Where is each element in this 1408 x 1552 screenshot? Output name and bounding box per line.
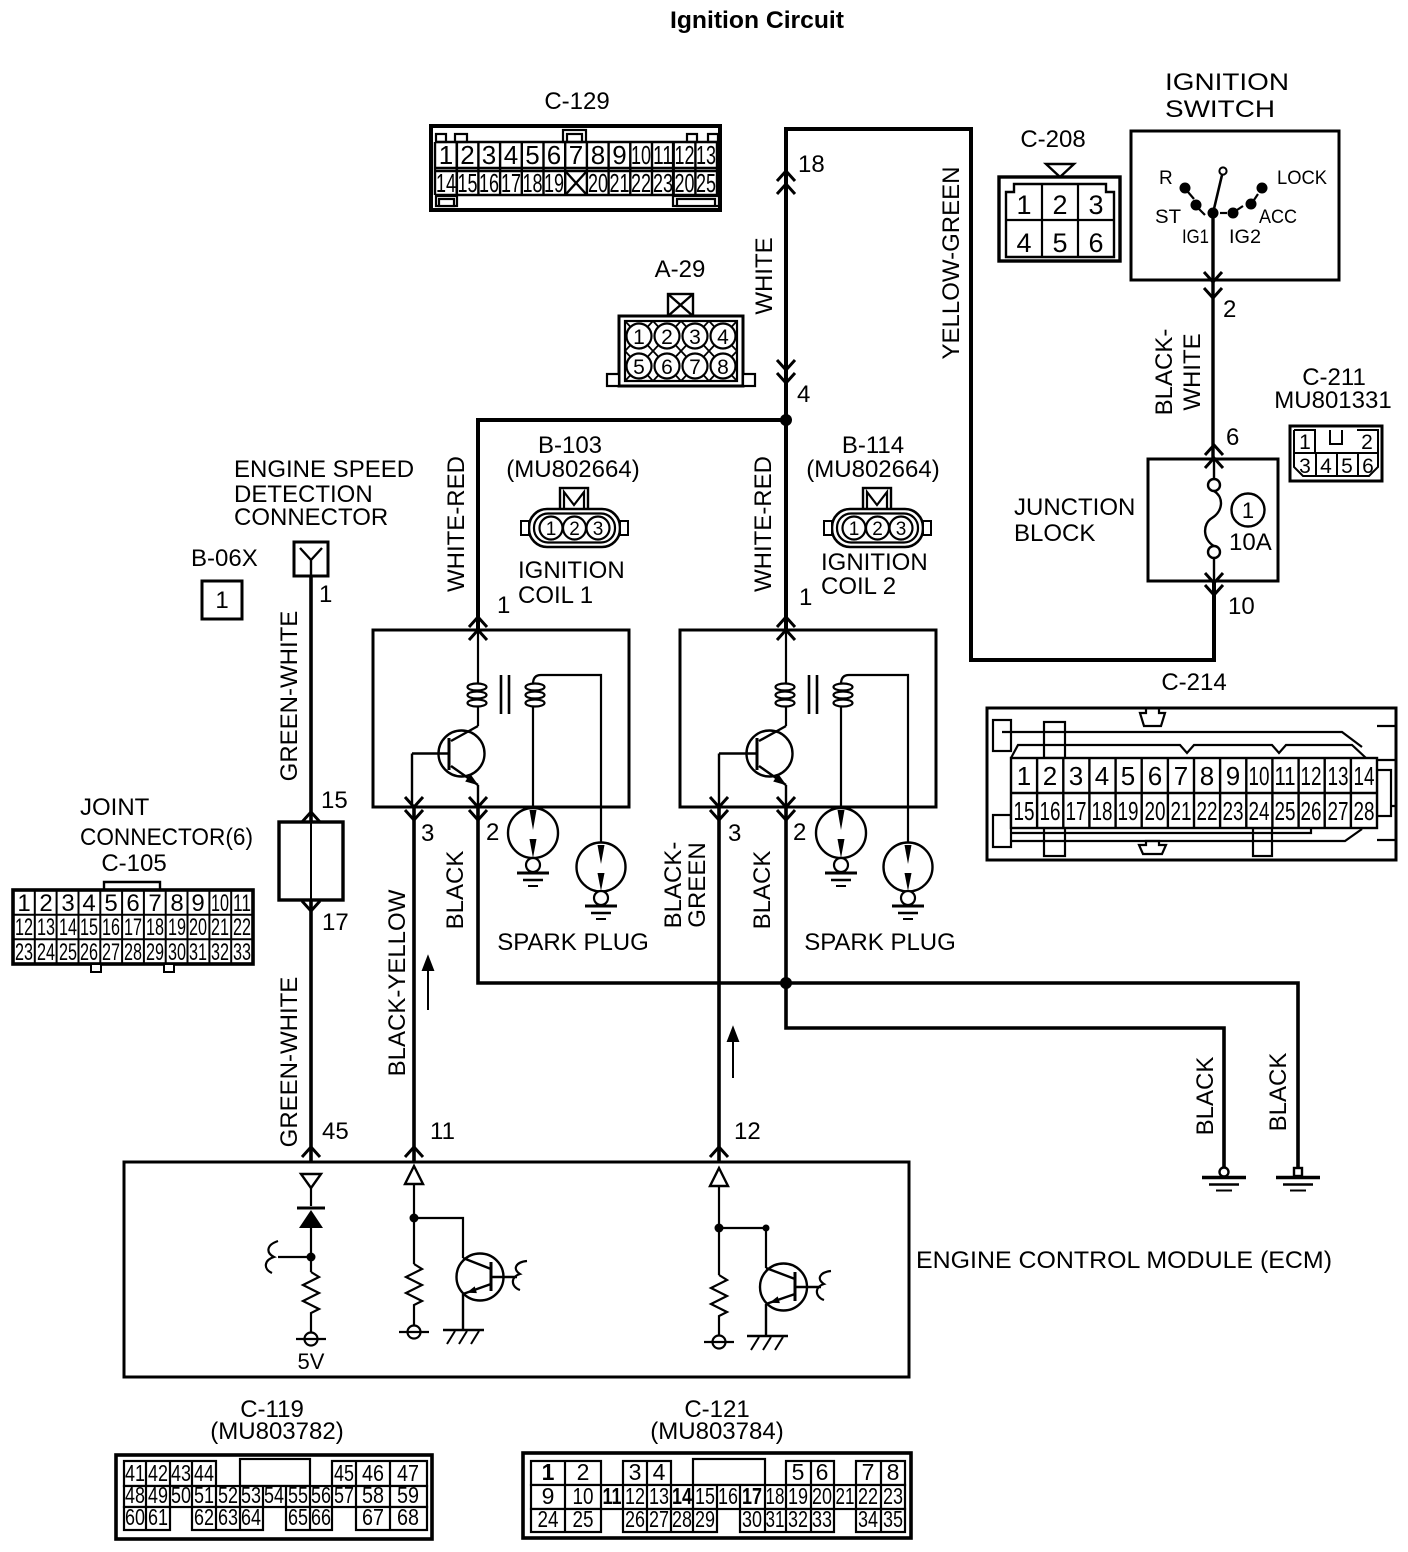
svg-text:GREEN-WHITE: GREEN-WHITE — [276, 611, 303, 782]
svg-text:8: 8 — [1200, 761, 1214, 791]
arrows into coil 2 pin 1 (up) — [777, 617, 795, 627]
transformer T2 secondary — [834, 675, 909, 843]
svg-text:22: 22 — [631, 168, 651, 198]
svg-text:MU801331: MU801331 — [1274, 387, 1391, 414]
node pin12 — [715, 1224, 724, 1233]
ground G1 — [1202, 1168, 1246, 1191]
transistor Q4 — [760, 1264, 821, 1337]
ignition switch — [1131, 69, 1339, 280]
svg-text:2: 2 — [793, 819, 806, 846]
svg-text:BLOCK: BLOCK — [1014, 520, 1095, 547]
arrows on white wire (up, pin 18) — [302, 171, 1223, 1157]
svg-text:BLACK: BLACK — [1265, 1053, 1292, 1132]
wire green-white: engine speed connector to joint connector to ECM pin 45 — [309, 576, 313, 822]
svg-text:20: 20 — [675, 168, 695, 198]
svg-text:33: 33 — [812, 1506, 832, 1532]
svg-text:(MU802664): (MU802664) — [806, 456, 939, 483]
svg-text:18: 18 — [1092, 796, 1113, 826]
svg-text:BLACK-: BLACK- — [660, 842, 687, 929]
svg-text:61: 61 — [148, 1504, 168, 1530]
chassis ground Q4 — [747, 1335, 788, 1337]
svg-text:8: 8 — [887, 1459, 900, 1485]
svg-text:21: 21 — [836, 1483, 855, 1509]
svg-text:CONNECTOR: CONNECTOR — [234, 504, 388, 531]
svg-text:25: 25 — [573, 1506, 594, 1532]
svg-text:16: 16 — [479, 168, 499, 198]
svg-text:ENGINE CONTROL MODULE (ECM): ENGINE CONTROL MODULE (ECM) — [916, 1247, 1332, 1274]
svg-text:BLACK: BLACK — [1192, 1057, 1219, 1136]
joint connector C-105 — [13, 794, 253, 972]
svg-text:SWITCH: SWITCH — [1165, 96, 1275, 123]
svg-text:7: 7 — [1174, 761, 1188, 791]
svg-text:17: 17 — [1066, 796, 1087, 826]
svg-text:5: 5 — [525, 140, 539, 170]
svg-text:35: 35 — [883, 1506, 903, 1532]
squiggle right of Q3 — [513, 1261, 527, 1290]
connector B-103 — [506, 432, 639, 609]
svg-text:2: 2 — [1043, 761, 1057, 791]
svg-text:LOCK: LOCK — [1277, 168, 1327, 189]
svg-text:1: 1 — [542, 1459, 555, 1485]
svg-text:26: 26 — [625, 1506, 645, 1532]
node junction white/white-red — [780, 414, 792, 426]
connector C-119 — [116, 1396, 432, 1539]
resistor R3 — [711, 1275, 727, 1335]
svg-text:32: 32 — [788, 1506, 808, 1532]
svg-text:19: 19 — [168, 914, 186, 941]
svg-text:45: 45 — [322, 1118, 349, 1145]
svg-text:WHITE-RED: WHITE-RED — [750, 456, 777, 592]
svg-text:JOINT: JOINT — [80, 794, 150, 821]
svg-text:27: 27 — [649, 1506, 669, 1532]
resistor R1 — [303, 1272, 319, 1332]
svg-text:Ignition Circuit: Ignition Circuit — [670, 7, 844, 34]
branch to transistor Q3 — [414, 1218, 463, 1258]
svg-text:67: 67 — [362, 1504, 384, 1530]
svg-text:64: 64 — [241, 1504, 261, 1530]
svg-text:8: 8 — [717, 356, 729, 379]
svg-text:10: 10 — [1249, 761, 1270, 791]
svg-text:COIL 2: COIL 2 — [821, 573, 896, 600]
svg-text:7: 7 — [148, 890, 161, 917]
wire black-green: coil2 pin3 to ECM pin 12 — [717, 807, 721, 1162]
svg-text:17: 17 — [124, 914, 142, 941]
svg-text:3: 3 — [1088, 190, 1103, 220]
A-29 pin grid diagonals — [625, 321, 737, 381]
svg-text:BLACK-YELLOW: BLACK-YELLOW — [384, 889, 411, 1076]
switch contact links — [1188, 192, 1258, 215]
svg-text:23: 23 — [15, 939, 33, 966]
svg-text:13: 13 — [37, 914, 55, 941]
svg-text:21: 21 — [211, 914, 229, 941]
svg-text:4: 4 — [797, 381, 810, 408]
terminal pin12 — [713, 1336, 726, 1349]
svg-text:7: 7 — [569, 140, 583, 170]
transformer T1 core — [501, 675, 509, 714]
svg-text:1: 1 — [799, 584, 812, 611]
ignition coil 1 box — [373, 630, 629, 843]
C-129 X cell — [565, 171, 587, 195]
svg-text:1: 1 — [1016, 190, 1031, 220]
svg-text:WHITE: WHITE — [1179, 333, 1206, 410]
svg-text:29: 29 — [146, 939, 164, 966]
svg-text:3: 3 — [629, 1459, 642, 1485]
branch to transistor Q4 — [719, 1228, 766, 1268]
svg-text:16: 16 — [102, 914, 120, 941]
svg-text:22: 22 — [233, 914, 251, 941]
svg-text:B-06X: B-06X — [191, 545, 258, 572]
transformer T1 primary — [468, 630, 487, 726]
A-29 pins — [627, 324, 736, 379]
wire black: coil1 pin2 to ground G2 — [478, 807, 1298, 1168]
svg-text:8: 8 — [591, 140, 605, 170]
svg-text:C-129: C-129 — [544, 88, 609, 115]
svg-text:1: 1 — [497, 592, 510, 619]
svg-text:YELLOW-GREEN: YELLOW-GREEN — [938, 167, 965, 360]
svg-text:20: 20 — [1145, 796, 1166, 826]
svg-text:2: 2 — [39, 890, 52, 917]
svg-text:4: 4 — [717, 326, 729, 349]
svg-text:13: 13 — [1328, 761, 1349, 791]
svg-text:4: 4 — [1095, 761, 1109, 791]
svg-text:3: 3 — [61, 890, 74, 917]
ECM pin 45 input triangle — [301, 1174, 321, 1188]
svg-text:1: 1 — [319, 581, 332, 608]
wire black-yellow: coil1 pin3 to ECM pin 11 — [412, 807, 416, 1162]
svg-text:BLACK-: BLACK- — [1151, 329, 1178, 416]
svg-text:IGNITION: IGNITION — [1165, 69, 1289, 96]
svg-text:7: 7 — [862, 1459, 875, 1485]
spark plug 2b — [884, 843, 933, 920]
transistor Q1 — [412, 726, 485, 807]
svg-text:1: 1 — [215, 587, 228, 614]
transformer T2 primary — [776, 630, 795, 726]
svg-text:25: 25 — [696, 168, 716, 198]
svg-text:CONNECTOR(6): CONNECTOR(6) — [80, 824, 253, 851]
svg-text:6: 6 — [547, 140, 561, 170]
svg-text:25: 25 — [1275, 796, 1296, 826]
switch contact ACC — [1246, 199, 1257, 210]
svg-text:9: 9 — [612, 140, 626, 170]
svg-text:32: 32 — [211, 939, 229, 966]
svg-text:1: 1 — [633, 326, 645, 349]
svg-text:B-114: B-114 — [842, 432, 904, 459]
svg-text:6: 6 — [1226, 424, 1239, 451]
svg-text:7: 7 — [689, 356, 701, 379]
svg-text:29: 29 — [695, 1506, 715, 1532]
switch contact pivot IG1 — [1208, 208, 1219, 219]
svg-text:19: 19 — [1118, 796, 1139, 826]
row 3 cells — [531, 1509, 601, 1532]
joint connector box on green-white wire — [279, 822, 343, 900]
svg-text:28: 28 — [1354, 796, 1375, 826]
svg-text:63: 63 — [218, 1504, 238, 1530]
svg-text:54: 54 — [264, 1482, 284, 1508]
svg-text:18: 18 — [146, 914, 164, 941]
svg-text:5V: 5V — [298, 1349, 325, 1374]
chassis ground Q3 — [443, 1329, 484, 1331]
svg-text:30: 30 — [168, 939, 186, 966]
svg-text:30: 30 — [742, 1506, 762, 1532]
svg-text:22: 22 — [1197, 796, 1218, 826]
svg-text:12: 12 — [675, 140, 695, 170]
svg-text:3: 3 — [482, 140, 496, 170]
switch contact ST — [1191, 200, 1202, 211]
spark plug 1a — [508, 808, 558, 886]
svg-text:GREEN-WHITE: GREEN-WHITE — [276, 977, 303, 1148]
wire main feed: junction block to yellow-green riser, top bus, white drop — [786, 129, 1214, 660]
svg-text:6: 6 — [126, 890, 139, 917]
wire black: coil2 pin2 to ground G1 — [786, 807, 1224, 1168]
spark plug 1b — [577, 843, 626, 920]
junction block — [1014, 459, 1278, 581]
svg-text:2: 2 — [569, 519, 580, 540]
svg-text:20: 20 — [189, 914, 207, 941]
svg-text:5: 5 — [1121, 761, 1135, 791]
transformer T2 core — [809, 675, 817, 714]
arrow into joint connector (up, pin 15) — [302, 812, 320, 822]
svg-text:COIL 1: COIL 1 — [518, 582, 593, 609]
svg-text:15: 15 — [1014, 796, 1035, 826]
svg-text:3: 3 — [896, 519, 907, 540]
svg-text:6: 6 — [816, 1459, 829, 1485]
svg-text:IGNITION: IGNITION — [821, 549, 928, 576]
svg-text:B-103: B-103 — [538, 432, 602, 459]
svg-text:6: 6 — [1148, 761, 1162, 791]
switch contact IG2 — [1228, 208, 1239, 219]
svg-text:1: 1 — [439, 140, 453, 170]
svg-text:27: 27 — [102, 939, 120, 966]
svg-text:50: 50 — [171, 1482, 191, 1508]
switch contact LOCK — [1257, 183, 1268, 194]
svg-text:2: 2 — [1361, 431, 1373, 454]
svg-text:12: 12 — [734, 1118, 761, 1145]
C-129 bottom feet — [436, 196, 457, 206]
connector A-29 — [607, 256, 755, 386]
svg-text:WHITE: WHITE — [751, 237, 778, 314]
svg-text:11: 11 — [233, 890, 251, 917]
wire white-red branch to ignition coil 1 — [478, 420, 786, 630]
C-129 pin cells row 1 — [435, 142, 717, 195]
svg-text:C-208: C-208 — [1020, 126, 1085, 153]
arrows into junction block (up, pin 6) — [1205, 445, 1223, 455]
connector C-129 — [431, 88, 720, 210]
svg-text:4: 4 — [1016, 228, 1031, 258]
svg-text:34: 34 — [858, 1506, 878, 1532]
svg-text:60: 60 — [125, 1504, 145, 1530]
svg-text:2: 2 — [1052, 190, 1067, 220]
svg-text:2: 2 — [661, 326, 673, 349]
svg-text:IG2: IG2 — [1229, 227, 1261, 248]
svg-text:4: 4 — [1320, 455, 1332, 478]
svg-text:17: 17 — [501, 168, 521, 198]
svg-text:17: 17 — [322, 909, 349, 936]
node pin45 — [307, 1253, 316, 1262]
svg-text:3: 3 — [593, 519, 604, 540]
svg-text:21: 21 — [610, 168, 630, 198]
svg-text:23: 23 — [1223, 796, 1244, 826]
svg-text:4: 4 — [82, 890, 95, 917]
svg-text:6: 6 — [661, 356, 673, 379]
diode D1 — [297, 1207, 325, 1210]
svg-text:5: 5 — [792, 1459, 805, 1485]
wire pin11 internal — [413, 1184, 415, 1264]
svg-text:1: 1 — [849, 519, 860, 540]
svg-text:14: 14 — [1354, 761, 1375, 791]
svg-text:(MU803784): (MU803784) — [650, 1418, 783, 1445]
svg-text:27: 27 — [1328, 796, 1349, 826]
svg-text:24: 24 — [538, 1506, 559, 1532]
svg-text:12: 12 — [15, 914, 33, 941]
svg-text:JUNCTION: JUNCTION — [1014, 494, 1135, 521]
svg-text:1: 1 — [17, 890, 30, 917]
svg-text:IGNITION: IGNITION — [518, 557, 625, 584]
svg-text:9: 9 — [1226, 761, 1240, 791]
svg-text:66: 66 — [311, 1504, 331, 1530]
svg-text:31: 31 — [766, 1506, 785, 1532]
svg-text:10: 10 — [1228, 593, 1255, 620]
direction arrow beside black-yellow wire — [423, 957, 433, 1010]
svg-text:19: 19 — [544, 168, 564, 198]
svg-text:10A: 10A — [1229, 529, 1272, 556]
row 2 cells — [531, 1485, 905, 1509]
svg-text:SPARK PLUG: SPARK PLUG — [497, 929, 649, 956]
svg-text:2: 2 — [577, 1459, 590, 1485]
svg-text:WHITE-RED: WHITE-RED — [443, 456, 470, 592]
svg-text:31: 31 — [189, 939, 207, 966]
C-208 index triangle — [1046, 164, 1074, 177]
svg-text:10: 10 — [211, 890, 229, 917]
svg-text:11: 11 — [603, 1483, 622, 1509]
svg-text:20: 20 — [588, 168, 608, 198]
svg-text:3: 3 — [728, 820, 741, 847]
switch contact R — [1180, 183, 1191, 194]
A-29 feet — [607, 374, 619, 386]
svg-text:14: 14 — [436, 168, 456, 198]
C-214 pin grid — [1011, 758, 1377, 828]
svg-text:62: 62 — [194, 1504, 214, 1530]
C-129 guide lines — [456, 142, 458, 196]
svg-text:R: R — [1159, 168, 1173, 189]
svg-text:1: 1 — [1017, 761, 1031, 791]
row 1 cells — [124, 1461, 216, 1486]
svg-text:4: 4 — [504, 140, 518, 170]
svg-text:1: 1 — [1299, 431, 1311, 454]
svg-text:ENGINE SPEED: ENGINE SPEED — [234, 456, 414, 483]
arrows below coil 1 pin 2 (down) — [469, 797, 487, 807]
svg-text:BLACK: BLACK — [749, 851, 776, 930]
svg-text:2: 2 — [1223, 296, 1236, 323]
spark plug 2a — [816, 808, 866, 886]
row 2 cells — [124, 1486, 427, 1507]
wire black-white: ignition switch to junction block — [1211, 218, 1214, 459]
svg-text:9: 9 — [191, 890, 204, 917]
svg-text:GREEN: GREEN — [684, 842, 711, 927]
fuse number 1 — [1232, 494, 1265, 527]
transformer T1 secondary — [526, 675, 602, 843]
svg-text:65: 65 — [288, 1504, 308, 1530]
svg-text:15: 15 — [458, 168, 478, 198]
svg-text:(MU803782): (MU803782) — [210, 1418, 343, 1445]
svg-text:15: 15 — [80, 914, 98, 941]
node junction black wires — [780, 977, 792, 989]
svg-text:23: 23 — [653, 168, 673, 198]
A-29 lock tab — [668, 294, 693, 316]
wire pin45 internal — [310, 1188, 312, 1272]
arrows into coil 1 pin 1 (up) — [469, 617, 487, 627]
svg-text:3: 3 — [1069, 761, 1083, 791]
svg-text:IG1: IG1 — [1182, 227, 1209, 248]
terminal 5V — [305, 1333, 318, 1346]
svg-text:25: 25 — [59, 939, 77, 966]
arrows ignition switch output (down, pin 2) — [1204, 272, 1222, 282]
row 3 cells — [124, 1507, 170, 1530]
connector C-208 — [999, 126, 1120, 261]
svg-text:11: 11 — [1275, 761, 1296, 791]
svg-text:SPARK PLUG: SPARK PLUG — [804, 929, 956, 956]
svg-text:24: 24 — [1249, 796, 1270, 826]
connector B-114 — [806, 432, 939, 600]
svg-text:57: 57 — [334, 1482, 354, 1508]
svg-text:68: 68 — [397, 1504, 419, 1530]
C-208 pin grid — [1006, 184, 1114, 257]
direction arrow beside black-green wire — [728, 1028, 738, 1078]
svg-text:33: 33 — [233, 939, 251, 966]
svg-text:5: 5 — [1341, 455, 1353, 478]
svg-text:5: 5 — [1052, 228, 1067, 258]
ECM box — [124, 1162, 1332, 1377]
svg-text:18: 18 — [523, 168, 543, 198]
svg-text:16: 16 — [1040, 796, 1061, 826]
ignition coil 2 box — [680, 630, 936, 843]
C-129 top tabs — [436, 130, 719, 206]
engine speed detection connector — [234, 456, 414, 576]
svg-text:10: 10 — [631, 140, 651, 170]
svg-text:24: 24 — [37, 939, 55, 966]
row 1 cells — [531, 1461, 601, 1485]
svg-text:4: 4 — [653, 1459, 666, 1485]
arrows into ECM pins 45,11,12 (up) — [302, 1147, 320, 1157]
svg-text:28: 28 — [672, 1506, 692, 1532]
svg-text:2: 2 — [486, 819, 499, 846]
svg-text:16: 16 — [718, 1483, 738, 1509]
svg-text:C-214: C-214 — [1161, 669, 1226, 696]
svg-text:18: 18 — [798, 151, 825, 178]
ECM pin 11 input triangle — [405, 1166, 423, 1184]
svg-text:13: 13 — [696, 140, 716, 170]
connector C-214 — [987, 669, 1396, 860]
transistor Q2 — [719, 726, 793, 807]
hook to comparator (squiggle) — [278, 1256, 311, 1258]
squiggle right of Q4 — [817, 1271, 831, 1300]
fuse F1 — [1205, 459, 1221, 581]
svg-text:ST: ST — [1155, 207, 1181, 228]
arrows out of junction block (down, pin 10) — [1205, 573, 1223, 583]
transistor Q3 — [457, 1254, 518, 1331]
svg-text:5: 5 — [633, 356, 645, 379]
svg-text:26: 26 — [1301, 796, 1322, 826]
terminal pin11 — [408, 1326, 421, 1339]
svg-text:ACC: ACC — [1259, 207, 1297, 228]
ground G2 — [1276, 1168, 1320, 1191]
svg-text:C-105: C-105 — [101, 850, 166, 877]
wire pin12 internal — [718, 1186, 720, 1275]
svg-text:28: 28 — [124, 939, 142, 966]
svg-text:14: 14 — [59, 914, 77, 941]
svg-text:11: 11 — [653, 140, 673, 170]
svg-text:2: 2 — [460, 140, 474, 170]
svg-text:3: 3 — [689, 326, 701, 349]
